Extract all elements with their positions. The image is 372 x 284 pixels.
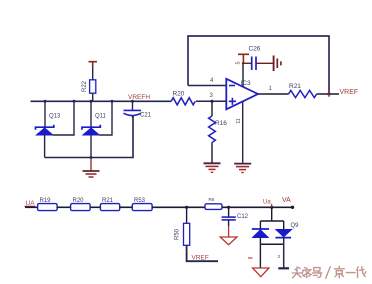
capacitor C12 bbox=[222, 207, 249, 220]
diode Q9 left (anode down) bbox=[252, 221, 269, 244]
svg-text:R21: R21 bbox=[289, 83, 301, 90]
node junction Q13 loop bbox=[73, 100, 76, 103]
wire R6 to VA bbox=[222, 206, 293, 208]
svg-text:VREF: VREF bbox=[192, 254, 209, 261]
wire minus input bbox=[188, 85, 227, 87]
char tiao bbox=[302, 268, 311, 278]
wire R16 to ground bbox=[211, 143, 213, 164]
node junction ground bbox=[90, 156, 93, 159]
slash bbox=[326, 267, 331, 279]
resistor R21 (bottom) bbox=[100, 198, 119, 211]
net tick VREF bbox=[328, 91, 330, 97]
node junction R50 bbox=[185, 206, 188, 209]
node junction feedback/output bbox=[327, 92, 330, 95]
svg-text:Q11: Q11 bbox=[95, 114, 107, 120]
op-amp IC3 bbox=[226, 79, 258, 110]
svg-text:R19: R19 bbox=[40, 198, 52, 204]
node junction supply/C26 bbox=[242, 62, 244, 64]
wire top bus VREFH bbox=[31, 100, 172, 102]
wire R19-R20 bbox=[57, 206, 71, 208]
op-amp bottom pin wire bbox=[242, 102, 244, 163]
wire Ua to Q9 bbox=[271, 207, 273, 221]
wire R21 to VREF bbox=[317, 93, 339, 95]
resistor R20 (top) bbox=[171, 91, 195, 105]
node junction C21 bbox=[131, 100, 134, 103]
wire bus to op-amp + input bbox=[196, 100, 227, 102]
svg-text:C21: C21 bbox=[140, 113, 152, 119]
wire R22 to bus bbox=[92, 93, 94, 101]
svg-text:VREF: VREF bbox=[340, 89, 359, 96]
op-amp top supply pin wire bbox=[242, 63, 244, 86]
resistor R20 (bottom) bbox=[71, 198, 91, 211]
ground below R16 bbox=[204, 163, 221, 172]
wire Q9 bottom bus bbox=[260, 243, 283, 245]
svg-text:Q9: Q9 bbox=[291, 223, 300, 229]
node junction R22/Q11 bbox=[90, 100, 93, 103]
power VCC bar op-amp bbox=[238, 54, 249, 63]
svg-text:R20: R20 bbox=[173, 91, 185, 98]
zener diode Q11 bbox=[82, 101, 107, 135]
wire right diode to ground bar bbox=[283, 238, 285, 268]
char jing bbox=[335, 266, 345, 278]
watermark 头条号/京一代 bbox=[292, 266, 366, 278]
wire from VCC to R22 bbox=[92, 67, 94, 80]
svg-text:IC3: IC3 bbox=[241, 80, 252, 87]
svg-text:R6: R6 bbox=[209, 197, 215, 202]
ground below Q11 bbox=[83, 158, 100, 178]
resistor R22 bbox=[82, 80, 96, 93]
char dai bbox=[357, 267, 366, 278]
svg-text:R22: R22 bbox=[82, 80, 88, 92]
node junction Q13 bbox=[44, 100, 47, 103]
resistor R6 bbox=[205, 197, 222, 209]
resistor R21 (top) bbox=[289, 83, 317, 98]
svg-text:R20: R20 bbox=[73, 198, 85, 204]
wire Q9 top bus bbox=[260, 220, 283, 222]
zener diode Q13 bbox=[36, 101, 62, 135]
capacitor C26 bbox=[243, 46, 273, 71]
wire UA to R19 bbox=[25, 206, 38, 208]
svg-text:Ua: Ua bbox=[263, 199, 271, 205]
svg-text:R16: R16 bbox=[215, 120, 227, 127]
char yi bbox=[346, 272, 355, 274]
wire R50 to VREF stub bbox=[187, 245, 218, 261]
capacitor C21 bbox=[124, 101, 152, 118]
svg-text:5: 5 bbox=[236, 61, 242, 64]
svg-text:R21: R21 bbox=[102, 198, 114, 204]
wire C12 to analog ground bbox=[228, 221, 230, 227]
resistor R16 bbox=[209, 101, 228, 142]
svg-text:C26: C26 bbox=[249, 46, 261, 53]
wire Q11 anode down bbox=[90, 135, 92, 158]
svg-text:R53: R53 bbox=[134, 198, 146, 204]
wire bottom bus to C21 bbox=[45, 116, 133, 158]
diode Q9 right (cathode down) bbox=[275, 221, 291, 238]
tick pin 2 bbox=[248, 257, 253, 259]
analog ground below Q9 bbox=[253, 268, 269, 277]
svg-text:11: 11 bbox=[236, 118, 242, 123]
ground bar right bbox=[278, 267, 289, 269]
wire R20-R21 bbox=[90, 206, 100, 208]
svg-text:VREFH: VREFH bbox=[128, 94, 150, 101]
ground right of C26 bbox=[274, 56, 281, 72]
node junction Q11 loop bbox=[111, 100, 114, 103]
wire op-amp output bbox=[258, 93, 289, 95]
wire R21-R53 bbox=[120, 206, 133, 208]
wire Q13 anode down bbox=[44, 135, 46, 158]
ground below op-amp bbox=[234, 164, 251, 173]
resistor R19 bbox=[38, 198, 58, 211]
resistor R50 bbox=[175, 207, 190, 245]
char hao bbox=[312, 268, 321, 278]
svg-text:C12: C12 bbox=[237, 214, 249, 220]
wire R53 to R6 bbox=[152, 206, 205, 208]
svg-text:R50: R50 bbox=[175, 228, 181, 240]
wire Q13 loop bbox=[53, 101, 74, 135]
power VCC bar above R22 bbox=[89, 62, 98, 67]
node junction C12 bbox=[227, 206, 230, 209]
wire feedback loop bbox=[188, 36, 329, 94]
svg-text:Q13: Q13 bbox=[49, 114, 61, 120]
node 3 bbox=[210, 100, 213, 103]
char tou bbox=[292, 267, 301, 278]
resistor R53 bbox=[132, 198, 152, 211]
analog ground below C12 bbox=[220, 237, 237, 245]
wire Q11 loop bbox=[99, 101, 112, 135]
svg-text:VA: VA bbox=[282, 197, 291, 204]
wire left diode to analog ground bbox=[259, 244, 261, 267]
